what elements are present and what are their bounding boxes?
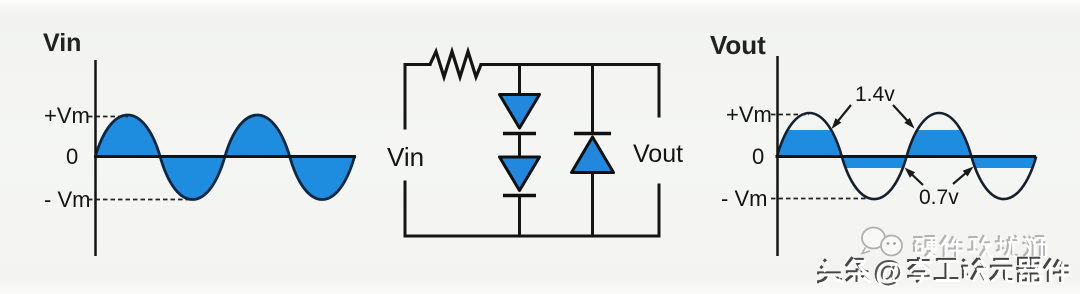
svg-text:+Vm: +Vm	[44, 103, 90, 128]
svg-text:0: 0	[66, 144, 78, 169]
Vin zero line (horizontal axis)	[94, 155, 356, 158]
svg-text:Vin: Vin	[387, 142, 424, 172]
Vout sine outline	[777, 113, 1036, 199]
svg-text:Vin: Vin	[43, 29, 81, 57]
wire: stub top node to diode D1 anode	[518, 65, 521, 96]
arrow from 0.7v to first negative clip	[905, 168, 924, 186]
dashed level line -Vm (Vout)	[771, 198, 871, 200]
svg-text:0.7v: 0.7v	[919, 186, 959, 209]
wire: top node to diode D3 cathode	[591, 65, 594, 134]
arrow from 1.4v to second clipped peak	[893, 105, 915, 129]
svg-text:1.4v: 1.4v	[855, 83, 895, 106]
clip mask upper (background over peaks above +1.4v level)	[770, 86, 1046, 130]
Vout clipped waveform blue fill	[777, 113, 1036, 199]
svg-text:+Vm: +Vm	[726, 102, 772, 127]
svg-text:Vout: Vout	[710, 30, 766, 60]
diode D3 (reverse clipper, pointing up)	[572, 134, 614, 173]
svg-text:Vout: Vout	[633, 140, 683, 168]
watermark text 硬件攻城狮 (embossed)	[913, 235, 1046, 259]
wire: bottom rail	[405, 235, 659, 238]
arrow from 1.4v to first clipped peak	[832, 105, 852, 129]
Vout vertical axis	[776, 56, 779, 256]
svg-text:- Vm: - Vm	[44, 187, 90, 212]
wire: D3 anode to bottom rail	[591, 173, 594, 237]
svg-text:- Vm: - Vm	[721, 186, 767, 211]
arrow from 0.7v to second negative clip	[953, 167, 974, 185]
wire: right lower segment (Vout return)	[658, 185, 661, 236]
wire: left lower segment (Vin return)	[404, 182, 407, 236]
wire: right upper segment (Vout node)	[658, 65, 661, 117]
diode D2 (series clipper, pointing down)	[500, 157, 540, 196]
wire: top segment from resistor to Vout node	[481, 63, 659, 66]
svg-text:@: @	[875, 257, 904, 290]
dashed level line +Vm (Vin)	[88, 116, 128, 118]
dashed level line -Vm (Vin)	[88, 199, 191, 201]
watermark logo: two speech bubbles	[862, 228, 902, 256]
watermark text 头条@李工谈元器件 (embossed)	[817, 255, 1070, 290]
svg-text:0: 0	[752, 144, 764, 169]
Vin sine waveform (input, filled)	[95, 115, 354, 199]
Vin vertical axis	[94, 60, 97, 256]
resistor R (series limiting resistor)	[430, 52, 481, 78]
clip mask lower (background under troughs below -0.7v level)	[770, 168, 1046, 212]
dashed level line +Vm (Vout)	[771, 114, 809, 116]
wire: top-left segment from Vin to resistor	[405, 65, 430, 129]
diode D1 (series clipper, pointing down)	[500, 95, 540, 134]
Vout zero line (horizontal axis)	[776, 155, 1037, 158]
wire: D2 cathode to bottom rail	[518, 196, 521, 237]
wire: between D1 cathode and D2 anode	[518, 134, 521, 158]
